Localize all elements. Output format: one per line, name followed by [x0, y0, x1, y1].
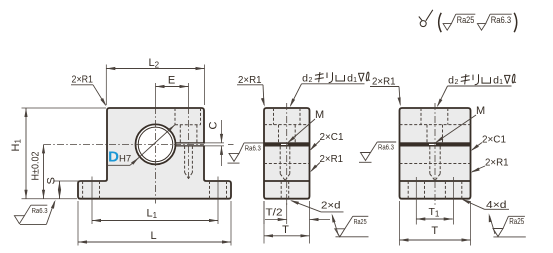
svg-text:L: L — [150, 230, 156, 242]
svg-text:D: D — [108, 149, 119, 166]
svg-text:T/2: T/2 — [266, 207, 283, 219]
svg-text:H7: H7 — [119, 154, 131, 165]
svg-text:2×C1: 2×C1 — [482, 134, 506, 146]
svg-text:C: C — [208, 122, 220, 130]
svg-text:1: 1 — [353, 77, 357, 84]
svg-text:2: 2 — [454, 79, 458, 86]
svg-text:Ra6.3: Ra6.3 — [32, 208, 48, 215]
svg-text:E: E — [168, 75, 175, 87]
svg-text:Ra25: Ra25 — [457, 15, 475, 25]
svg-text:2×d: 2×d — [321, 199, 341, 211]
svg-text:T: T — [282, 224, 289, 236]
svg-text:Ra6.3: Ra6.3 — [378, 145, 394, 152]
svg-text:2×R1: 2×R1 — [372, 76, 396, 88]
svg-text:M: M — [315, 109, 324, 121]
svg-text:T: T — [431, 225, 438, 237]
svg-text:L1: L1 — [147, 208, 158, 221]
svg-text:L2: L2 — [149, 57, 160, 70]
svg-text:H±0.02: H±0.02 — [31, 151, 42, 180]
svg-text:Ra6.3: Ra6.3 — [245, 146, 261, 153]
svg-text:T1: T1 — [429, 206, 440, 219]
svg-text:2×R1: 2×R1 — [320, 153, 344, 165]
svg-text:2×R1: 2×R1 — [72, 74, 94, 86]
svg-text:S: S — [46, 177, 58, 184]
svg-text:M: M — [476, 105, 485, 117]
svg-text:d: d — [302, 73, 308, 85]
svg-text:2×C1: 2×C1 — [320, 131, 344, 143]
svg-text:2×R1: 2×R1 — [238, 74, 262, 86]
svg-text:2×R1: 2×R1 — [485, 157, 509, 169]
svg-text:1: 1 — [499, 79, 503, 86]
svg-text:Ra6.3: Ra6.3 — [491, 15, 512, 25]
svg-text:2: 2 — [308, 77, 312, 84]
svg-text:d: d — [448, 75, 454, 87]
svg-text:Ra25: Ra25 — [509, 217, 524, 226]
svg-text:H1: H1 — [10, 139, 23, 152]
svg-text:Ra25: Ra25 — [354, 219, 367, 226]
